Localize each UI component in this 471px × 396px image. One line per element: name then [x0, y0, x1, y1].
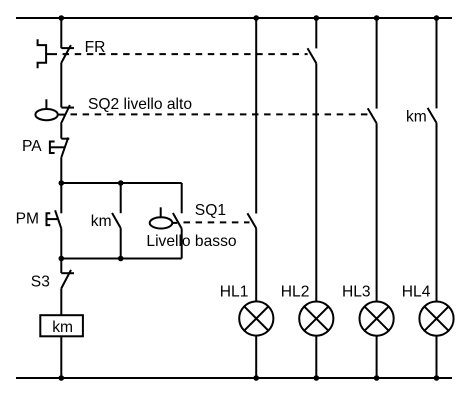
node: top rail junction HL1 column: [253, 15, 259, 21]
node: parallel top left: [59, 180, 65, 186]
svg-text:HL2: HL2: [281, 284, 310, 301]
node: top rail junction HL3 column: [374, 15, 380, 21]
wire: lamp HL3 to bottom rail: [376, 336, 378, 378]
wire: parallel block to S3: [60, 259, 62, 274]
switch S3 (NC): [61, 270, 74, 289]
node: parallel bottom left: [59, 256, 65, 262]
contactor coil KM: [40, 315, 83, 336]
pushbutton PA (NC): [50, 138, 69, 158]
float symbol of SQ1: [150, 207, 178, 228]
svg-text:km: km: [406, 109, 427, 126]
float symbol of SQ2: [35, 99, 65, 120]
lamp HL3: [360, 302, 394, 336]
svg-text:HL3: HL3: [342, 284, 371, 301]
svg-text:PA: PA: [22, 138, 42, 155]
contact linked to SQ1 (NO) on HL1 column: [247, 213, 256, 228]
top supply rail: [16, 17, 452, 19]
svg-text:PM: PM: [16, 211, 39, 228]
node: bottom rail junction HL3 column: [374, 375, 380, 381]
svg-text:km: km: [52, 319, 73, 336]
wire: HL3 column upper: [376, 18, 378, 109]
wire: HL4 column to lamp: [436, 123, 438, 301]
node: top rail junction left column: [59, 15, 65, 21]
level switch SQ1 contact (NO): [173, 213, 182, 229]
node: parallel bottom middle: [118, 256, 124, 262]
contact linked to FR (NO) on HL2 column: [308, 48, 317, 63]
wire: lamp HL4 to bottom rail: [436, 336, 438, 378]
contactor auxiliary contact km (NO, self-hold): [112, 213, 121, 228]
wire: HL4 column upper: [436, 18, 438, 108]
wire: FR to SQ2: [60, 63, 62, 107]
wire: lamp HL2 to bottom rail: [315, 336, 317, 378]
wire: HL2 column to lamp: [315, 63, 317, 301]
svg-text:SQ1: SQ1: [195, 202, 226, 219]
node: parallel top middle: [118, 180, 124, 186]
contactor auxiliary contact km (NO) on HL4 column: [428, 108, 437, 123]
wire: HL1 column upper: [255, 18, 257, 214]
pushbutton PM (NO): [47, 210, 62, 228]
wire: parallel right branch upper: [181, 183, 183, 213]
wire: coil KM to bottom rail: [60, 336, 62, 378]
wire: parallel right branch lower: [181, 229, 183, 259]
svg-text:S3: S3: [31, 273, 50, 290]
svg-text:HL4: HL4: [402, 284, 431, 301]
wire: parallel block top: [61, 182, 181, 184]
node: top rail junction HL4 column: [434, 15, 440, 21]
wire: parallel middle branch upper: [120, 183, 122, 213]
wire: lamp HL1 to bottom rail: [255, 336, 257, 378]
wire: parallel middle branch lower: [120, 228, 122, 258]
wire: HL2 column upper: [315, 18, 317, 48]
lamp HL1: [239, 301, 273, 335]
node: bottom rail junction HL2 column: [314, 375, 320, 381]
wire: PA to parallel block: [60, 157, 62, 183]
wire: SQ2 to PA: [60, 124, 62, 139]
svg-text:km: km: [91, 213, 112, 230]
thermal relay contact FR (NC): [61, 45, 74, 63]
svg-text:Livello basso: Livello basso: [146, 233, 236, 250]
wire: parallel block bottom: [61, 258, 181, 260]
svg-text:FR: FR: [85, 39, 106, 56]
svg-text:HL1: HL1: [220, 284, 249, 301]
wire: parallel left branch upper: [60, 183, 62, 213]
node: bottom rail junction left column: [59, 375, 65, 381]
bottom supply rail: [16, 377, 452, 379]
lamp HL2: [299, 302, 333, 336]
level switch SQ2 contact (NC): [61, 105, 74, 124]
contact linked to SQ2 (NO) on HL3 column: [368, 108, 377, 123]
node: top rail junction HL2 column: [314, 15, 320, 21]
wire: HL1 column to lamp: [255, 228, 257, 301]
thermal element of FR (hook symbol): [38, 39, 51, 68]
lamp HL4: [419, 302, 453, 336]
wire: top rail to FR contact: [60, 18, 62, 48]
node: bottom rail junction HL1 column: [253, 375, 259, 381]
mechanical link SQ1 (dashed): [184, 221, 250, 223]
wire: HL3 column to lamp: [376, 123, 378, 301]
node: bottom rail junction HL4 column: [434, 375, 440, 381]
mechanical link FR (dashed): [51, 53, 308, 55]
svg-text:SQ2 livello alto: SQ2 livello alto: [88, 96, 192, 113]
wire: parallel left branch lower: [60, 229, 62, 259]
wire: S3 to coil KM: [60, 288, 62, 315]
mechanical link SQ2 (dashed): [71, 113, 368, 115]
